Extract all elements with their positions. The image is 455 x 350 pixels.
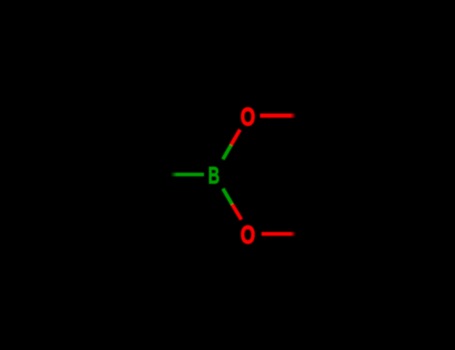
wire O-C upper bond red half [260, 114, 296, 118]
wire C-B bond left (green half) [171, 173, 205, 177]
wire O-C lower bond red half [262, 232, 297, 236]
wire B-O lower bond red half [232, 204, 241, 219]
svg-text:O: O [241, 221, 256, 249]
wire B-O upper bond green half [223, 145, 231, 159]
wire B-O lower bond green half [223, 189, 232, 205]
svg-text:O: O [241, 103, 256, 131]
wire B-O upper bond red half [231, 130, 240, 145]
svg-text:B: B [208, 163, 219, 189]
